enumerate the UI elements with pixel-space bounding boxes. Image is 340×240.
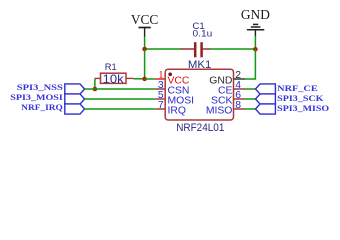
- pin 3 stub: [155, 88, 165, 90]
- port flag SPI3_MOSI: [65, 94, 85, 104]
- port flag NRF_IRQ: [65, 104, 85, 114]
- junction at GND / top rail: [253, 47, 258, 52]
- wire top rail right segment: [210, 48, 256, 50]
- wire R1 left to NSS net: [94, 78, 96, 89]
- svg-text:NRF_CE: NRF_CE: [277, 83, 318, 93]
- wire GND stem: [254, 36, 256, 49]
- power flag VCC: [131, 12, 158, 37]
- junction at VCC / top rail: [142, 47, 147, 52]
- ground GND: [241, 7, 270, 37]
- wire VCC rail down to pin 1 row: [144, 49, 146, 79]
- svg-text:SPI3_MOSI: SPI3_MOSI: [10, 92, 63, 102]
- svg-text:SPI3_MISO: SPI3_MISO: [277, 103, 329, 113]
- port flag SPI3_NSS: [65, 84, 85, 94]
- port flag SPI3_SCK: [256, 94, 276, 104]
- wire pin1 from VCC junction: [145, 78, 156, 80]
- pin 1 stub: [155, 78, 165, 80]
- svg-text:VCC: VCC: [131, 12, 158, 27]
- port flag SPI3_MISO: [256, 104, 276, 114]
- pin 6 stub: [234, 98, 246, 100]
- wire MOSI to pin 5: [85, 98, 156, 100]
- wire VCC stem: [144, 37, 146, 50]
- pin 2 stub: [234, 78, 246, 80]
- svg-text:SPI3_NSS: SPI3_NSS: [17, 82, 63, 92]
- svg-text:NRF24L01: NRF24L01: [176, 122, 224, 134]
- svg-text:MISO: MISO: [206, 105, 233, 116]
- pin 8 stub: [234, 108, 246, 110]
- wire pin4 to CE flag: [245, 88, 256, 90]
- svg-text:NRF_IRQ: NRF_IRQ: [21, 102, 63, 112]
- wire R1 right to VCC rail: [134, 78, 145, 80]
- junction R1/VCC/pin1: [142, 77, 147, 82]
- wire pin8 to MISO flag: [245, 108, 256, 110]
- wire pin6 to SCK flag: [245, 98, 256, 100]
- wire top rail left segment: [145, 48, 181, 50]
- wire IRQ to pin 7: [85, 108, 156, 110]
- svg-text:7: 7: [158, 100, 164, 111]
- svg-text:GND: GND: [241, 7, 270, 22]
- svg-text:R1: R1: [105, 61, 117, 72]
- port flag NRF_CE: [256, 84, 276, 94]
- wire pin2 to GND rail: [245, 49, 255, 79]
- capacitor C1: [180, 21, 212, 57]
- pin 7 stub: [155, 108, 165, 110]
- svg-text:10k: 10k: [103, 73, 124, 86]
- svg-text:0.1u: 0.1u: [193, 28, 213, 39]
- svg-text:IRQ: IRQ: [168, 105, 186, 116]
- wire NSS to pin 3: [85, 88, 156, 90]
- pin 5 stub: [155, 98, 165, 100]
- junction R1/NSS: [93, 87, 98, 92]
- pin 4 stub: [234, 88, 246, 90]
- svg-text:SPI3_SCK: SPI3_SCK: [277, 93, 324, 103]
- resistor R1: [95, 61, 134, 86]
